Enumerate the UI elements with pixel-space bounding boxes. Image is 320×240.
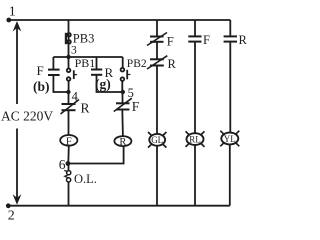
svg-text:(b): (b)	[33, 79, 50, 94]
contact R holding (NO)	[96, 57, 98, 70]
node 2	[6, 203, 11, 208]
contact F holding (NO)	[52, 57, 54, 70]
svg-text:F: F	[203, 33, 210, 47]
svg-text:R: R	[119, 137, 126, 148]
svg-text:O.L.: O.L.	[74, 172, 97, 186]
contact R (NO)	[224, 35, 237, 37]
svg-text:F: F	[167, 35, 174, 49]
contact R (NC)	[150, 58, 164, 60]
svg-text:F: F	[132, 99, 140, 114]
node 3	[66, 55, 70, 59]
svg-text:YL: YL	[224, 134, 236, 144]
wire main branch top	[68, 20, 70, 57]
wire to coil R	[121, 110, 124, 137]
lamp branch YL : wire from top rail corner	[229, 20, 231, 36]
pushbutton PB2 (NO)	[122, 57, 124, 68]
svg-text:R: R	[81, 101, 90, 116]
lamp branch RL : wire from top rail	[194, 20, 196, 36]
svg-text:PB1: PB1	[75, 56, 96, 70]
svg-text:AC 220V: AC 220V	[1, 109, 53, 124]
wire parallel rail	[53, 56, 122, 58]
contact F (NC) below node 5	[122, 92, 124, 103]
wire	[156, 146, 158, 206]
coil R	[114, 136, 131, 146]
svg-text:2: 2	[8, 209, 15, 224]
svg-text:R: R	[239, 33, 248, 47]
svg-text:GL: GL	[151, 135, 163, 145]
svg-text:3: 3	[71, 44, 77, 56]
pushbutton PB3 (NC)	[67, 33, 71, 37]
wire to coil F	[68, 110, 70, 135]
svg-text:PB2: PB2	[127, 58, 147, 70]
wire AC source lower segment with down arrow	[16, 129, 18, 200]
wire	[229, 144, 231, 205]
svg-text:RL: RL	[189, 135, 201, 145]
contact R (NC) below node 4	[68, 92, 70, 104]
svg-text:R: R	[168, 57, 177, 71]
svg-text:F: F	[37, 63, 44, 78]
wire	[229, 42, 231, 133]
wire	[194, 42, 196, 134]
contact F (NC)	[150, 36, 164, 38]
svg-text:5: 5	[128, 86, 134, 100]
svg-text:(g): (g)	[95, 77, 111, 92]
svg-text:6: 6	[59, 157, 66, 172]
wire	[156, 66, 158, 135]
node 4	[66, 90, 70, 94]
wire top rail	[8, 19, 230, 21]
coil F	[60, 135, 77, 146]
wire bottom rail	[8, 205, 230, 207]
lamp GL	[149, 134, 165, 146]
wire node 6 to coil R branch	[68, 146, 124, 164]
node 5	[121, 90, 125, 94]
wire AC source upper segment with up arrow	[16, 27, 18, 104]
node 6	[66, 161, 71, 166]
node 1	[6, 18, 11, 23]
contact F (NO)	[188, 35, 201, 37]
svg-text:1: 1	[9, 5, 16, 20]
wire	[194, 145, 196, 206]
lamp YL	[221, 133, 238, 145]
overload O.L.	[68, 164, 70, 171]
lamp RL	[187, 133, 204, 145]
wire coil F to node 6	[67, 146, 70, 164]
lamp branch GL : wire from top rail	[156, 20, 158, 37]
wire	[156, 42, 158, 60]
pushbutton PB1 (NO)	[68, 57, 70, 69]
